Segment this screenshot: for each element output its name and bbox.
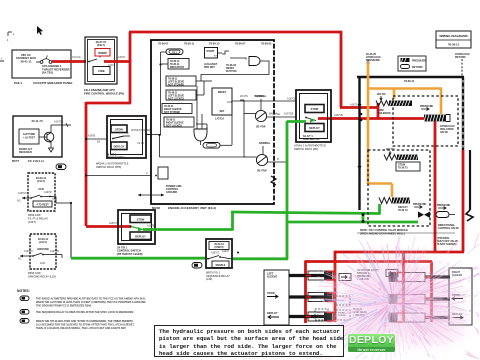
wire transistor emitter down — [50, 142, 52, 149]
mouse cursor — [37, 26, 43, 35]
svg-text:78-36-11: 78-36-11 — [404, 79, 415, 83]
svg-text:A197J: A197J — [118, 55, 126, 59]
deploy solenoid valve V1 — [376, 101, 389, 107]
wire green vertical x287 — [286, 121, 289, 260]
wire red manifold y252 — [334, 251, 464, 254]
wire green long y212 — [231, 212, 380, 214]
wire red top rail y32 — [129, 31, 342, 34]
wires into or gate U2 — [196, 86, 198, 129]
svg-text:4 TO REST: 4 TO REST — [36, 203, 49, 206]
svg-text:(L22?): (L22?) — [28, 220, 36, 224]
wire orange x392 to stow coil — [391, 184, 394, 198]
svg-text:A197CB: A197CB — [287, 98, 296, 101]
svg-text:COCKPIT BREAKER PANEL: COCKPIT BREAKER PANEL — [33, 81, 73, 85]
svg-text:28V DC: 28V DC — [386, 148, 395, 151]
svg-text:A197Z: A197Z — [222, 250, 229, 253]
svg-text:STOW: STOW — [311, 107, 319, 111]
black return vertical x463 dashed — [462, 77, 464, 150]
svg-text:28-47N: 28-47N — [240, 95, 248, 98]
svg-text:ACR: ACR — [40, 262, 45, 265]
proximity sensor SE-4TW lower — [256, 154, 267, 165]
svg-text:RECEIVER: RECEIVER — [19, 151, 32, 154]
svg-text:DEPLOY: DEPLOY — [135, 234, 146, 238]
svg-text:(CB 7): (CB 7) — [97, 43, 105, 47]
deploy coil valve V3 — [379, 198, 392, 204]
svg-text:SPD DET: SPD DET — [204, 66, 215, 69]
fire control module FB-1 outer — [85, 37, 117, 84]
wire relay R506 to green — [52, 254, 62, 256]
STOW inner box — [111, 125, 127, 133]
svg-text:A197CA: A197CA — [54, 121, 64, 124]
svg-text:R509 ACR: R509 ACR — [28, 213, 41, 217]
label 78-32-31 CSM5 — [209, 242, 229, 250]
box LEFT SLEEVE NOT STOWED — [166, 76, 196, 86]
svg-text:A197CV: A197CV — [24, 250, 33, 253]
svg-text:A197CV: A197CV — [18, 192, 27, 195]
black wire down x71 — [70, 203, 72, 258]
left actuator A2 — [289, 295, 326, 298]
svg-text:ENABLE: ENABLE — [216, 264, 226, 267]
wire red y226 to control switch — [86, 225, 131, 228]
svg-text:A NC: A NC — [108, 63, 114, 67]
svg-text:NC: NC — [18, 258, 22, 261]
T box left — [339, 274, 351, 281]
wire orange y88 — [367, 87, 442, 90]
svg-text:78-36-73: 78-36-73 — [398, 167, 408, 170]
svg-text:INDICATION: INDICATION — [170, 66, 184, 69]
arm switch contact — [305, 117, 307, 119]
svg-text:P18-1: P18-1 — [14, 81, 22, 85]
wire transistor collector up — [50, 125, 52, 133]
small box mid 3 — [315, 309, 328, 320]
directional control valve bowtie — [418, 212, 430, 218]
svg-text:GROUND: GROUND — [37, 247, 49, 251]
DEPLOY inner box arm — [305, 124, 324, 132]
note 2 — [20, 310, 29, 315]
relay R506 contacts — [20, 255, 32, 257]
svg-text:(CH 5): (CH 5) — [39, 240, 47, 244]
small box right of pin — [158, 167, 168, 179]
wire out of altitude box — [62, 124, 71, 126]
wire red y118 — [318, 117, 425, 120]
wire red v x378 — [377, 103, 380, 119]
svg-text:78-36-11: 78-36-11 — [184, 42, 195, 46]
svg-text:SWITCH PACK (P8): SWITCH PACK (P8) — [294, 147, 318, 151]
wire orange x394 to solenoid — [393, 89, 396, 100]
svg-text:NOT STOWED: NOT STOWED — [164, 111, 180, 114]
note 3 — [20, 319, 29, 324]
wire red vertical x341 — [340, 31, 343, 108]
wire red breaker to fire module — [52, 60, 86, 63]
svg-text:< 10 FEET: < 10 FEET — [23, 136, 35, 139]
right actuator A4 — [425, 275, 450, 278]
svg-text:FC 2 (E1-1): FC 2 (E1-1) — [28, 159, 44, 163]
svg-text:DEPLOY: DEPLOY — [267, 311, 278, 315]
ENABLE box — [212, 261, 229, 268]
svg-text:START: START — [206, 50, 215, 53]
svg-text:SLEEVE: SLEEVE — [267, 275, 278, 279]
svg-text:NORM: NORM — [98, 51, 107, 55]
svg-text:C: C — [127, 132, 129, 135]
svg-text:A197CB: A197CB — [284, 113, 294, 116]
svg-text:78-36-11: 78-36-11 — [448, 43, 459, 47]
svg-text:4YCCA: 4YCCA — [72, 55, 81, 59]
wire orange x441 to isolation valve — [440, 89, 443, 115]
small dashed box mid 1 — [336, 296, 350, 305]
indication boxes 78-36-11 — [168, 59, 189, 70]
svg-text:NC: NC — [52, 198, 56, 201]
START box — [205, 48, 218, 59]
svg-text:STOW: STOW — [115, 127, 123, 131]
svg-text:TR 1: TR 1 — [172, 52, 178, 54]
or gate U1 — [249, 57, 260, 66]
svg-text:A197B: A197B — [88, 135, 96, 138]
svg-text:THE SEQUENCE RELAY CLOSES 500: THE SEQUENCE RELAY CLOSES 500 MS AFTER T… — [36, 311, 134, 314]
svg-text:VALVE: VALVE — [440, 131, 448, 134]
to rest box — [33, 201, 52, 207]
DEPLOY inner box S4 — [130, 232, 151, 240]
trunk arrows x359 — [358, 104, 362, 108]
wire red vertical x86 — [85, 102, 88, 226]
svg-text:R577: R577 — [12, 159, 20, 163]
svg-text:(CH 2): (CH 2) — [37, 179, 45, 183]
red rail x335 — [334, 251, 337, 322]
svg-text:NOT LOCKED: NOT LOCKED — [166, 124, 182, 127]
svg-text:FIRE: FIRE — [98, 69, 105, 73]
svg-text:STOW: STOW — [267, 291, 275, 295]
svg-text:DEPLOY: DEPLOY — [114, 144, 125, 148]
svg-text:GROUND: GROUND — [166, 191, 177, 194]
svg-text:FIRE CONTROL MODULE (P8): FIRE CONTROL MODULE (P8) — [84, 91, 124, 95]
svg-text:STOW: STOW — [137, 217, 145, 221]
svg-text:8A: 8A — [277, 113, 280, 116]
oval connector — [56, 164, 66, 170]
svg-text:78-36-73: 78-36-73 — [398, 209, 408, 212]
right actuator A6 — [425, 316, 450, 319]
junction dots on trunk — [360, 113, 363, 116]
shutoff valve zigzag — [469, 150, 471, 210]
NORM box red — [95, 49, 110, 57]
step waveform symbol — [222, 51, 229, 54]
svg-text:28V DC: 28V DC — [377, 93, 386, 96]
svg-text:THE GROUND FROM FCC D ENERGIZE: THE GROUND FROM FCC D ENERGIZES R509. — [36, 304, 92, 307]
wire green jog x363 — [362, 213, 365, 222]
control ground wire arrows — [138, 194, 164, 196]
red stubs into actuators — [306, 272, 432, 323]
wire red y107 — [340, 106, 379, 109]
junction dot ECU left — [159, 63, 161, 65]
altitude threshold box — [19, 129, 39, 144]
left actuator A1 — [289, 274, 326, 277]
svg-text:NOT LOCKED: NOT LOCKED — [168, 97, 184, 100]
right sleeve label box — [449, 268, 472, 325]
latch box — [212, 88, 232, 115]
wire green y258 left — [71, 257, 205, 260]
hydraulic module dashed box A — [393, 96, 458, 146]
stow switch S6 box — [107, 116, 146, 158]
svg-text:D: D — [277, 158, 279, 161]
svg-text:A197CB: A197CB — [50, 250, 59, 253]
box LEFT SLEEVE NOT LOCKED — [166, 90, 196, 100]
svg-text:A197CT: A197CT — [109, 222, 118, 225]
wire sensor lower to green — [267, 161, 287, 163]
circuit breaker panel P18-1 — [12, 50, 71, 78]
control switch S4 box — [118, 210, 155, 244]
wire red vertical x435 isolation to manifold — [434, 121, 437, 252]
arm switch box outer — [296, 90, 331, 142]
svg-text:78-36-07: 78-36-07 — [235, 42, 246, 46]
corner tick marks — [8, 31, 12, 33]
proximity sensor SE-4TW upper — [255, 110, 266, 121]
svg-text:EXT: EXT — [214, 56, 219, 58]
svg-text:(P8 THRUST LEVER): (P8 THRUST LEVER) — [117, 252, 143, 256]
FIRE box — [93, 67, 110, 75]
svg-text:BUTTON: BUTTON — [226, 70, 237, 73]
svg-text:A197B: A197B — [147, 225, 155, 228]
svg-text:NO: NO — [17, 200, 21, 203]
wire red bus to stow switch — [86, 138, 107, 140]
svg-text:NOTES:: NOTES: — [17, 289, 30, 293]
legend box — [398, 56, 426, 71]
sequence relay contacts — [207, 258, 209, 260]
or gate U2 big — [194, 129, 207, 141]
svg-text:A197M: A197M — [44, 191, 52, 194]
engine accessory unit MC08 box — [151, 40, 274, 204]
svg-text:SE-4TW: SE-4TW — [257, 170, 267, 173]
wire red y103 under module — [86, 102, 131, 105]
left sleeve label box — [264, 270, 289, 325]
right actuator A5 — [425, 297, 450, 300]
stow solenoid valve V2 — [384, 155, 397, 161]
svg-text:LATCH: LATCH — [215, 117, 224, 121]
svg-text:NOT STOWED: NOT STOWED — [168, 83, 184, 86]
black trunk horizontal y77 — [357, 76, 464, 78]
svg-text:SPACING RELAY (L22): SPACING RELAY (L22) — [28, 274, 56, 278]
wire stow switch to ECU — [146, 134, 151, 136]
svg-text:T/L FT & RELAX: T/L FT & RELAX — [28, 216, 48, 220]
DEPLOY overlay word — [348, 334, 395, 352]
svg-text:SWITCH PACK (P55): SWITCH PACK (P55) — [96, 165, 121, 169]
relay R509 contacts — [22, 197, 30, 199]
DEPLOY inner box — [111, 142, 127, 150]
wires to latch — [196, 80, 212, 82]
control switch contact red-green — [130, 226, 132, 228]
svg-text:A197CB: A197CB — [334, 114, 343, 117]
wiring diagrams title box — [436, 31, 471, 48]
svg-text:78-36-13: 78-36-13 — [209, 42, 220, 46]
celebration sparkle overlay — [224, 233, 480, 360]
STOW inner box arm — [305, 105, 324, 113]
svg-text:(CSM 5): (CSM 5) — [215, 246, 224, 249]
wire green v x380 to deploy coil — [378, 204, 381, 215]
wire green y258 right — [233, 257, 288, 260]
red rail x403 — [402, 252, 405, 322]
wire or gate U1 output loop — [201, 61, 269, 81]
divider line under note — [357, 232, 455, 234]
oval connector 2 — [192, 263, 202, 269]
svg-text:THEN, IF A SLEEVE UNLOCK MODEL: THEN, IF A SLEEVE UNLOCK MODEL, THE LATC… — [36, 327, 127, 330]
wire red module to right — [104, 60, 131, 63]
svg-text:A700A 1 AUTOTHROTTLE: A700A 1 AUTOTHROTTLE — [294, 144, 326, 148]
wire ECU inner left — [160, 52, 162, 135]
legend pressure symbol — [401, 58, 410, 62]
svg-text:(5A T81): (5A T81) — [42, 71, 53, 75]
svg-text:SOLENOID: SOLENOID — [378, 112, 391, 115]
wire orange y183 — [368, 182, 392, 185]
T box right — [386, 270, 398, 277]
svg-text:NORMAL: NORMAL — [259, 141, 271, 145]
wire red manifold y261 — [305, 260, 432, 263]
left actuator A3 — [289, 315, 326, 318]
red rail x305 — [304, 261, 307, 324]
svg-text:AFTER STOW SW: AFTER STOW SW — [131, 129, 151, 132]
svg-text:R506 ACR: R506 ACR — [28, 271, 41, 275]
wire relay to bus — [50, 196, 56, 198]
svg-text:W034A 1 AUTOTHROTTLE: W034A 1 AUTOTHROTTLE — [96, 162, 129, 166]
fire switch lever — [89, 59, 97, 62]
timer oval — [203, 143, 220, 149]
svg-text:RETURN: RETURN — [455, 56, 466, 59]
svg-text:PRESSURE: PRESSURE — [412, 60, 426, 63]
wire green vertical x232 — [231, 211, 234, 231]
svg-text:78-36-02: 78-36-02 — [261, 42, 272, 46]
svg-text:ENGINE ACCESSORY UNIT (E3-2): ENGINE ACCESSORY UNIT (E3-2) — [168, 206, 216, 210]
relay R509 box — [28, 173, 55, 211]
svg-text:78-36-07: 78-36-07 — [158, 42, 169, 46]
wire green from control switch — [143, 228, 233, 231]
control valve module dashed box B — [368, 150, 430, 226]
svg-text:(L22): (L22) — [206, 277, 212, 281]
svg-text:RESET: RESET — [218, 91, 227, 94]
svg-text:CONTROL VALVE: CONTROL VALVE — [438, 227, 459, 230]
stow switch contacts — [112, 138, 114, 140]
transistor Q1 — [44, 132, 54, 142]
STOW inner box S4 — [130, 215, 151, 223]
svg-text:C1 NC: C1 NC — [137, 142, 144, 145]
wire sensor to arm switch — [266, 116, 296, 118]
radio altitude monitor box R577 — [13, 116, 62, 157]
svg-text:RETURN: RETURN — [412, 66, 423, 69]
svg-text:22-11-73: 22-11-73 — [31, 119, 42, 123]
wire green y222 — [286, 221, 418, 224]
box RIGHT SLEEVE NOT LOCKED — [164, 117, 194, 127]
box RIGHT SLEEVE NOT STOWED — [162, 104, 192, 114]
svg-text:STOW SWITCH: STOW SWITCH — [106, 156, 125, 160]
ECU right edge break symbol — [271, 176, 276, 185]
svg-text:NORMAL: NORMAL — [254, 95, 265, 98]
wire green from arm switch — [287, 120, 306, 123]
label stow solenoid box — [396, 162, 420, 171]
relay R506 box — [30, 234, 56, 269]
wire gate to timer — [200, 141, 202, 145]
circuit breaker CB1 ENGINE 1 THRUST REVERSER — [36, 61, 40, 63]
black trunk vertical x359 — [358, 77, 360, 210]
svg-text:A197CT: A197CT — [211, 252, 220, 255]
sequence relay box — [206, 239, 232, 268]
wire red vertical x130 — [129, 32, 132, 103]
wires sensors left loop — [244, 113, 250, 115]
svg-text:WIRING DIAGRAMS: WIRING DIAGRAMS — [439, 34, 467, 38]
hydraulic isolation valve — [424, 115, 446, 122]
TR 1 oval indicator — [166, 49, 183, 55]
svg-text:28-41-11: 28-41-11 — [20, 59, 31, 63]
wire orange vertical x368 — [367, 62, 370, 184]
svg-text:SET: SET — [220, 110, 225, 113]
legend return symbol — [401, 65, 410, 69]
hydraulic return dashed lead — [461, 59, 463, 77]
svg-text:ARM SWITCH: ARM SWITCH — [303, 138, 319, 141]
red rail x431 — [430, 262, 433, 323]
small dashed box mid 2 — [336, 310, 350, 320]
svg-text:OUT: OUT — [227, 101, 233, 104]
ECU pin wire y135 — [146, 134, 160, 136]
directional valve pilot oval — [436, 212, 449, 218]
svg-text:SE-4TW: SE-4TW — [256, 126, 266, 129]
svg-text:A197Z: A197Z — [350, 104, 358, 107]
note 1 — [20, 296, 29, 301]
caption text box — [154, 325, 344, 357]
hydraulic pressure arrow — [367, 60, 370, 65]
wire red vertical x463 return — [462, 150, 465, 252]
left edge tick — [0, 60, 4, 62]
ECU pin wire y175 from red bus — [86, 175, 151, 177]
svg-text:DEPLOY: DEPLOY — [309, 126, 320, 130]
